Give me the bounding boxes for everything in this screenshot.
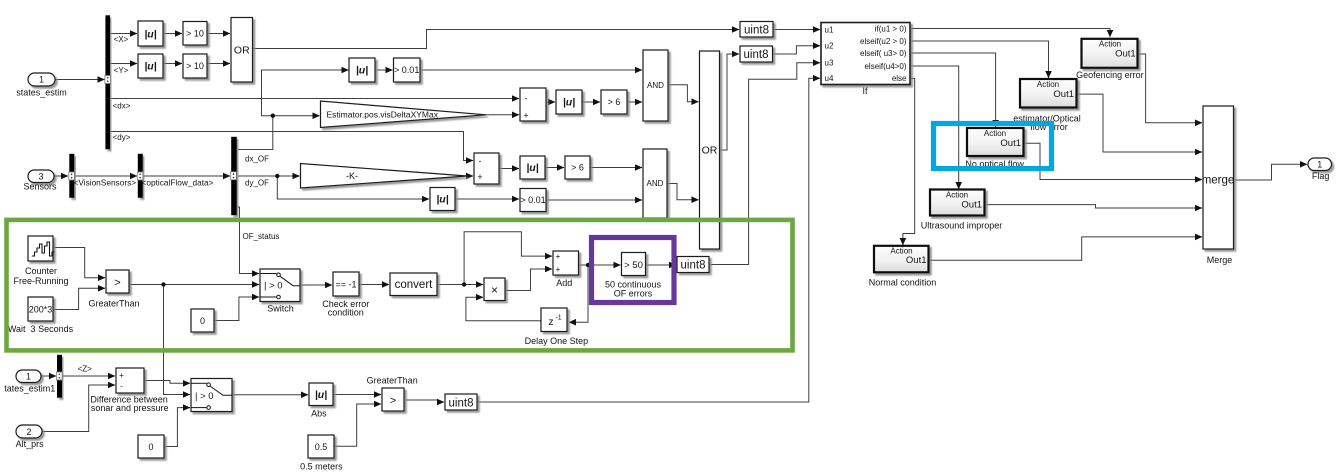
svg-text:+: + [477,172,482,182]
inport 2 Alt_prs [16,425,42,438]
wire dy_OF to gainK [238,175,300,177]
svg-text:Out1: Out1 [1115,49,1136,60]
svg-text:<dx>: <dx> [113,102,131,111]
svg-text:-: - [525,94,528,104]
wire Y to abs2 [110,63,137,65]
wire If else to Normal [903,79,915,246]
svg-text:GreaterThan: GreaterThan [88,299,139,309]
svg-text:0: 0 [200,316,205,326]
svg-text:OF_status: OF_status [243,232,280,241]
svg-text:|u|: |u| [356,65,368,77]
wire X to abs1 [110,33,137,35]
wire convert to mult [437,284,483,286]
wire If out2 to estimator [910,41,1049,78]
wire gt001b to AND2 [546,199,642,201]
svg-text:dy_OF: dy_OF [245,179,269,188]
merge block [1202,106,1235,249]
bus selector 2 [69,154,74,198]
wire abs3 to gt001a [375,69,393,71]
wire counter to gtA [52,248,105,278]
abs |u| sum2 [520,156,545,179]
svg-text:1: 1 [39,75,44,85]
annotation purple box [592,238,675,303]
gain -K- [301,164,468,189]
relop > 0.01 b [520,189,546,212]
svg-text:|u|: |u| [144,29,156,41]
wire OF_status [236,207,259,274]
wire const05 to gtB [334,404,381,446]
logic AND2 [643,149,667,218]
if block U1 [821,23,910,85]
relop GreaterThan A [106,270,129,293]
junction node dx_OF [271,114,275,118]
svg-text:2: 2 [26,427,31,437]
relop == -1 [333,272,359,296]
constant 0 a [191,309,214,332]
svg-text:-: - [479,156,482,166]
wire AND2 to OR2 [667,184,699,200]
svg-text:> 6: > 6 [608,97,621,107]
svg-text:|u|: |u| [144,61,156,73]
svg-text:uint8: uint8 [744,24,769,36]
bus selector 4 [231,137,237,215]
abs |u| X [138,21,163,46]
svg-text:GreaterThan: GreaterThan [367,375,418,385]
svg-text:Wait 3 Seconds: Wait 3 Seconds [8,324,74,334]
inport 3 Sensors [28,170,54,183]
BARS [57,15,591,397]
svg-text:Action: Action [946,190,968,199]
svg-text:Action: Action [1099,39,1121,48]
wire add branch to delay [569,265,588,322]
wire eq to convert [359,284,389,286]
svg-text:sonar and pressure: sonar and pressure [91,403,169,413]
svg-text:> 0.01: > 0.01 [520,195,545,205]
wire mult to add2 [505,269,552,291]
wire Z to sum3 [62,375,115,377]
sum Add [553,251,579,275]
svg-text:If: If [862,86,868,96]
svg-text:uint8: uint8 [744,49,769,61]
svg-text:OF errors: OF errors [614,289,653,299]
wire abs6 to gt6b [545,167,564,169]
svg-text:-: - [120,382,123,391]
convert uint8 b [740,46,773,62]
wire gt001a to AND1 [420,69,642,71]
svg-text:Alt_prs: Alt_prs [16,439,45,449]
wire tates_estim1 to bus5 [41,375,56,377]
wire dy to sum2 [110,132,473,161]
wire uint8c to If u3 [709,63,820,265]
wire delay to mult2 [466,297,541,321]
svg-text:Estimator.pos.visDeltaXYMax: Estimator.pos.visDeltaXYMax [327,110,439,120]
svg-text:u3: u3 [825,58,834,67]
svg-text:elseif(u2 > 0): elseif(u2 > 0) [860,37,907,46]
action Normal condition [874,246,929,272]
svg-text:+: + [556,265,561,274]
wire bus3 to bus4 [143,175,230,177]
wire NoOptical to merge [1024,143,1203,179]
wire sum3 to switch2 [144,381,190,384]
svg-text:OR: OR [234,45,250,57]
action Ultrasound improper [930,190,985,216]
svg-text:Sensors: Sensors [23,182,57,192]
svg-text:else: else [892,74,907,83]
inport 1 states_estim [28,73,55,86]
svg-text:Geofencing error: Geofencing error [1076,70,1144,80]
svg-text:1: 1 [1317,159,1322,169]
svg-text:<Z>: <Z> [78,365,93,374]
constant 0 b [138,435,164,458]
wire Abs to gtB [333,394,381,396]
bus selector 5 [57,355,62,398]
sum 2 [474,153,499,184]
wire uint8b to If u2 [773,46,821,54]
svg-text:u1: u1 [825,26,834,35]
wire abs2 to gt10b [163,63,182,65]
wire convert branch to add1 [464,232,552,285]
svg-text:Out1: Out1 [906,255,927,266]
wire sum2 to abs6 [499,168,519,170]
svg-text:convert: convert [395,279,434,291]
wire Geofencing to merge [1138,54,1202,123]
svg-text:uint8: uint8 [449,397,474,409]
wire Sensors to bus2 [54,175,68,177]
abs |u| Y [138,54,163,78]
wire uint8d to If u4 [477,78,820,402]
wire OR1 to uint8a [253,30,740,49]
logic OR1 [231,18,253,83]
svg-text:+: + [119,371,124,380]
svg-text:z: z [548,316,553,328]
annotation cyan box [934,124,1052,169]
svg-text:|u|: |u| [436,194,448,206]
annotation green box [7,220,793,351]
wire bus2 to bus3 [75,175,137,177]
inport 1 tates_estim1 [16,370,41,383]
wire If out3 to NoOptical [910,53,996,127]
junction node dy_OF [275,174,279,178]
svg-text:elseif(u4>0): elseif(u4>0) [864,62,906,71]
convert uint8 d [445,394,477,410]
svg-text:|u|: |u| [563,97,575,109]
wire const0a to switch1 [214,297,259,321]
abs |u| dy [430,188,455,211]
convert uint8 c [677,257,709,273]
svg-text:Add: Add [556,278,572,288]
relop GreaterThan B [382,388,404,411]
svg-text:Out1: Out1 [1000,138,1021,149]
svg-text:×: × [491,283,498,297]
wire switch2 to Abs [232,394,308,396]
wire abs1 to gt10a [163,33,182,35]
svg-text:AND: AND [647,81,664,90]
wire AND1 to OR2 [668,85,699,102]
switch 2 [191,379,232,412]
switch 1 [260,269,300,302]
wire gtB to uint8d [404,400,444,402]
wire OR2 to uint8b [721,54,740,150]
dtc convert [390,273,437,296]
svg-text:Action: Action [890,247,912,256]
svg-text:Delay One Step: Delay One Step [525,336,589,346]
svg-text:0.5: 0.5 [315,442,328,452]
wire const0b to switch2 [164,408,190,447]
svg-text:Free-Running: Free-Running [13,276,68,286]
wire gainK to sum2 plus [467,175,473,177]
svg-text:Flag: Flag [1312,171,1330,181]
relop > 50 [622,253,646,276]
logic AND1 [643,50,668,121]
svg-text:uint8: uint8 [681,260,706,272]
svg-text:Out1: Out1 [961,200,982,211]
svg-text:dx_OF: dx_OF [245,155,269,164]
svg-text:> 10: > 10 [186,61,204,71]
wire gt6a to AND1 [627,101,642,103]
svg-text:<dy>: <dy> [113,133,131,142]
abs Abs [309,383,333,406]
svg-text:tates_estim1: tates_estim1 [4,383,55,393]
wire merge to Flag [1234,164,1307,180]
svg-text:| > 0: | > 0 [195,391,214,402]
wire gtA branch to switch2 [164,285,191,395]
svg-text:|u|: |u| [315,389,327,401]
wire Ultrasound to merge [985,205,1203,208]
svg-text:> 0.01: > 0.01 [394,65,419,75]
constant 200*3 [28,297,53,321]
wire sum1 to abs5 [546,101,555,103]
wire wait to gtA [52,288,105,309]
svg-text:Normal condition: Normal condition [869,278,937,288]
svg-text:Ultrasound improper: Ultrasound improper [921,221,1003,231]
wire gt6b to AND2 [590,167,642,169]
svg-text:0: 0 [148,442,153,452]
abs |u| dx [349,58,375,82]
wire dx to sum1 [110,98,519,100]
svg-text:merge: merge [1202,175,1235,187]
HIGHLIGHTS [7,124,1052,351]
junction node Add out [586,263,590,267]
svg-text:<VisionSensors>: <VisionSensors> [74,178,137,188]
wire estimator to merge [1077,94,1203,152]
wire switch1 to eq [300,284,332,286]
svg-text:<opticalFlow_data>: <opticalFlow_data> [142,178,214,188]
svg-text:condition: condition [328,308,364,318]
svg-text:if(u1 > 0): if(u1 > 0) [875,25,907,34]
svg-text:-1: -1 [555,315,561,322]
delay z-1 [541,308,567,332]
relop > 10 X [183,22,207,46]
svg-text:+: + [556,252,561,261]
wire branch to abs3 [262,70,349,116]
junction node GreaterThan out [161,282,165,286]
wire uint8a to If u1 [773,29,820,31]
svg-text:-K-: -K- [346,171,358,181]
product X [484,278,505,301]
svg-text:0.5 meters: 0.5 meters [300,462,343,472]
svg-text:>: > [114,277,120,289]
wire dy_OF branch to abs4 [277,176,429,199]
svg-text:+: + [523,111,528,121]
action Geofencing error [1082,39,1138,68]
wire Normal to merge [929,237,1203,260]
svg-text:|u|: |u| [526,162,538,174]
svg-text:Out1: Out1 [1053,89,1074,100]
svg-text:>: > [390,395,396,407]
wire abs5 to gt6a [582,101,600,103]
bus selector 3 [138,154,143,198]
svg-text:<X>: <X> [114,35,129,44]
relop > 6 b [565,156,590,179]
junction node convert out [462,282,466,286]
sum Difference [116,368,144,393]
outport 1 Flag [1308,158,1332,171]
svg-text:Abs: Abs [311,409,327,419]
svg-text:| > 0: | > 0 [264,280,283,291]
logic OR2 [700,51,720,249]
svg-text:u4: u4 [825,74,834,83]
relop > 6 a [601,90,627,114]
svg-text:> 10: > 10 [186,29,204,39]
wire to estimator gain [273,115,320,117]
wire gtA to switch1 [128,284,259,286]
wire Alt_prs to sum3 [42,385,115,432]
sum 1 [520,88,546,121]
source Counter Free-Running [28,236,55,261]
bus selector 1 [105,15,110,149]
svg-text:1: 1 [26,371,31,381]
action No optical flow [967,128,1024,156]
svg-text:<Y>: <Y> [114,66,129,75]
wire states_estim to bus1 [55,79,105,81]
svg-text:AND: AND [647,179,664,188]
svg-text:Action: Action [984,129,1006,138]
svg-text:200*3: 200*3 [29,305,53,315]
gain Estimator.pos.visDeltaXYMax [321,101,487,128]
svg-text:elseif( u3> 0): elseif( u3> 0) [860,49,907,58]
svg-text:3: 3 [38,171,43,181]
svg-text:== -1: == -1 [335,280,356,290]
svg-text:states_estim: states_estim [16,88,67,98]
abs |u| sum1 [556,90,582,114]
action estimator/Optical flow error [1020,79,1077,108]
wire If out1 to Geofencing [910,29,1110,38]
svg-text:u2: u2 [825,41,834,50]
svg-text:Counter: Counter [25,266,57,276]
wire add to gt50 [579,264,621,266]
wire estimator gain to sum1 plus [486,114,519,116]
relop > 0.01 a [394,58,421,82]
wire If out4 to Ultrasound [910,66,959,189]
svg-text:Merge: Merge [1207,255,1233,265]
constant 0.5 [308,435,334,458]
convert uint8 a [740,22,773,38]
svg-text:OR: OR [702,145,718,157]
svg-text:> 6: > 6 [571,163,584,173]
wire dx_OF riser [238,116,273,150]
wire abs4 to gt001b [455,198,519,200]
relop > 10 Y [183,54,207,78]
svg-text:Switch: Switch [267,304,294,314]
wire gt10b to OR1 [207,63,230,65]
svg-text:Action: Action [1037,80,1059,89]
wire gt50 to uint8c [645,264,676,266]
svg-text:> 50: > 50 [624,260,643,271]
wire gt10a to OR1 [207,33,230,35]
